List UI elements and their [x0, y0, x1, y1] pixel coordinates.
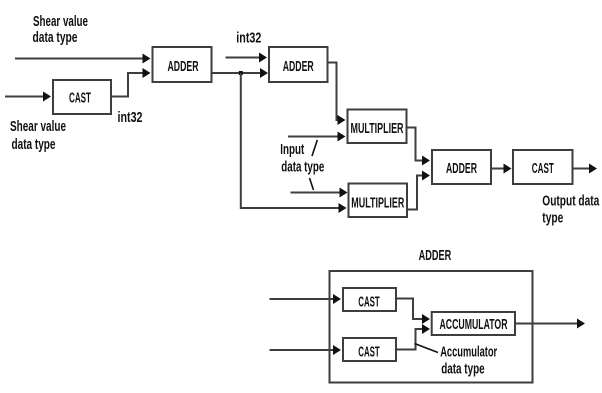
wire adder U6 to cast U7 [492, 164, 512, 174]
svg-text:data type: data type [33, 30, 78, 46]
wire int32 into adder U3 [226, 53, 268, 63]
wire adder U1 to adder U3 [213, 68, 269, 78]
wire cast U2 to adder U1 [112, 68, 151, 97]
wire multiplier U5 to adder U6 [407, 171, 430, 210]
cast U2 box [53, 80, 111, 114]
svg-text:Input: Input [280, 142, 304, 158]
junction node on adder U1 output [239, 71, 243, 75]
wire input data type to multiplier U5 [291, 188, 348, 198]
svg-text:CAST: CAST [69, 91, 91, 107]
svg-text:type: type [542, 211, 563, 227]
svg-text:ADDER: ADDER [283, 59, 314, 75]
svg-text:Shear value: Shear value [10, 119, 66, 135]
adder subsystem outer box [330, 271, 533, 383]
label Accumulator data type [440, 345, 497, 378]
svg-text:ADDER: ADDER [419, 248, 452, 264]
label Shear value data type (below cast input) [10, 119, 66, 153]
svg-text:Accumulator: Accumulator [440, 345, 497, 361]
svg-text:CAST: CAST [358, 345, 380, 361]
svg-text:Output data: Output data [542, 194, 600, 210]
svg-text:int32: int32 [236, 31, 261, 47]
adder U6 box [432, 150, 491, 184]
wire input data type to multiplier U4 [288, 132, 346, 142]
wire junction down to multiplier U5 [241, 73, 347, 213]
svg-text:data type: data type [441, 362, 485, 378]
adder U1 box [153, 47, 212, 82]
leader backslash down [310, 178, 314, 190]
svg-text:CAST: CAST [358, 295, 380, 311]
wire input 2 to cast U9 [270, 345, 342, 355]
wire output from accumulator U10 [515, 319, 585, 329]
svg-text:ACCUMULATOR: ACCUMULATOR [440, 317, 508, 333]
cast U8 box [343, 288, 396, 311]
svg-text:CAST: CAST [532, 161, 554, 177]
label Shear value data type (top-left) [33, 14, 89, 46]
label Output data type [542, 194, 600, 227]
wire multiplier U4 to adder U6 [407, 128, 431, 166]
svg-text:data type: data type [12, 137, 56, 153]
wire input to cast U2 [5, 92, 51, 102]
adder U3 box [269, 47, 328, 82]
cast U9 box [343, 338, 396, 361]
label Input data type [280, 140, 324, 190]
svg-text:MULTIPLIER: MULTIPLIER [351, 121, 404, 137]
svg-text:Shear value: Shear value [33, 14, 88, 30]
cast U7 box [513, 150, 573, 184]
svg-text:data type: data type [281, 160, 324, 176]
svg-text:int32: int32 [118, 110, 143, 126]
leader slash up [312, 140, 317, 156]
accumulator U10 box [432, 312, 515, 335]
wire adder U3 to multiplier U4 [328, 63, 346, 126]
multiplier U4 box [348, 110, 407, 144]
multiplier U5 box [349, 184, 408, 218]
svg-text:ADDER: ADDER [168, 59, 199, 75]
wire input 1 to adder U1 [15, 54, 151, 64]
wire input 1 to cast U8 [270, 294, 342, 304]
leader to accumulator data type label [415, 344, 439, 353]
wire output from cast U7 [573, 164, 598, 174]
svg-text:ADDER: ADDER [446, 161, 477, 177]
svg-text:MULTIPLIER: MULTIPLIER [351, 196, 404, 212]
wire cast U9 to accumulator U10 [396, 324, 430, 350]
wire cast U8 to accumulator U10 [396, 299, 430, 325]
